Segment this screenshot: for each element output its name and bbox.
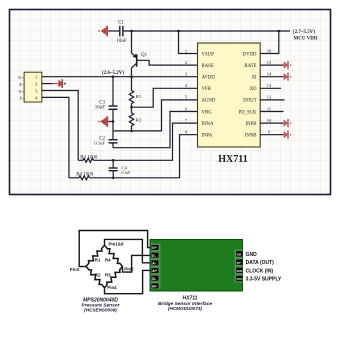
bridge sensor diamond arm R4 (top-right) [103, 244, 124, 268]
svg-text:CLOCK (IN): CLOCK (IN) [246, 268, 274, 274]
node: junction AGND/R2 [130, 130, 133, 133]
wire: bridge Pin3 to module E+ (outer loop) [79, 231, 150, 267]
svg-text:S-: S- [19, 96, 24, 101]
bridge labels [70, 242, 134, 290]
pin numbers 16-9 right of IC [267, 48, 272, 134]
power port arrow pin15 [284, 61, 292, 69]
module pad A- [152, 260, 159, 265]
wire: connector pin2 to AGND power port [42, 83, 53, 85]
resistor R1 [129, 91, 142, 104]
wire: pin11 PD_SCK stub [260, 111, 283, 113]
svg-text:Q1: Q1 [141, 53, 148, 58]
wire: connector pin3 (S+) down to R3 [42, 91, 78, 161]
node: junction rail/R1 [130, 75, 133, 78]
svg-text:Pin1&6: Pin1&6 [109, 242, 124, 247]
transistor Q1 (PNP) [132, 31, 148, 77]
svg-text:C1: C1 [118, 21, 124, 26]
node: junction C4/R4 line [112, 177, 115, 180]
svg-text:HX711: HX711 [218, 154, 247, 165]
node: junction rail/C3 [112, 75, 115, 78]
svg-text:Pin4: Pin4 [107, 285, 117, 290]
svg-text:R3 1000: R3 1000 [80, 155, 98, 160]
capacitor C4 0.1uF [109, 160, 131, 178]
pressure sensor caption [81, 297, 120, 312]
svg-text:R4 1000: R4 1000 [76, 172, 94, 177]
svg-text:DATA (OUT): DATA (OUT) [246, 260, 275, 266]
node: junction R1/R2/VFB [130, 106, 133, 109]
wire: AVDD rail (2.6-5.2V) [42, 71, 198, 77]
capacitor C1 10uF [116, 21, 127, 44]
power port AGND (red arrow left, mid) [98, 116, 113, 127]
node: junction rail/pin1 drop [177, 30, 180, 33]
bridge sensor diamond arm R3 (bottom-right) [103, 265, 124, 289]
svg-text:E-: E- [19, 82, 24, 87]
svg-text:(2.7~5.5V): (2.7~5.5V) [293, 30, 315, 35]
wire: VSUP pin 1 connection [179, 31, 198, 54]
wire: connector pin4 (S-) down to R4 [42, 97, 69, 177]
power port VSUP (red arrow left of C1) [98, 26, 119, 37]
svg-text:VBG: VBG [202, 110, 213, 115]
HX711 module PCB [150, 240, 243, 292]
svg-text:VCC: VCC [237, 277, 243, 281]
power port arrow pin9 [284, 131, 292, 139]
svg-text:DOUT: DOUT [243, 99, 256, 104]
svg-text:PD_SCK: PD_SCK [239, 110, 257, 115]
wire: R1 top lead [131, 77, 133, 91]
svg-text:0.1uF: 0.1uF [122, 171, 131, 175]
svg-text:AVDD: AVDD [202, 76, 216, 81]
module pad GND [236, 251, 242, 256]
svg-text:XO: XO [250, 87, 257, 92]
svg-text:0.1uF: 0.1uF [94, 141, 105, 146]
svg-text:E+: E+ [152, 246, 157, 250]
svg-text:12: 12 [267, 95, 271, 100]
svg-text:INPB: INPB [246, 122, 257, 127]
svg-text:Pin2: Pin2 [124, 267, 134, 272]
module pad E+ [152, 245, 159, 250]
module pad E- [152, 253, 159, 258]
svg-text:A+: A+ [152, 269, 157, 273]
module pad DT [236, 259, 242, 264]
svg-text:S+: S+ [18, 89, 24, 94]
svg-text:XI: XI [251, 76, 256, 81]
power port AGND at connector pin2 (red arrow right) [53, 79, 66, 88]
svg-text:(HCMODU0073): (HCMODU0073) [168, 306, 202, 311]
bridge sensor diamond arm R2 (bottom-left) [85, 265, 106, 289]
node: junction rail/pin16 drop [278, 30, 281, 33]
svg-text:B+: B+ [152, 285, 157, 289]
module pad A+ [152, 268, 159, 273]
svg-text:DVDD: DVDD [243, 52, 257, 57]
wire: pin12 DOUT stub [260, 99, 284, 101]
svg-text:VSUP: VSUP [202, 52, 215, 57]
svg-text:R4: R4 [105, 258, 111, 263]
svg-text:2: 2 [185, 60, 187, 65]
svg-text:(HCSENS0009): (HCSENS0009) [84, 308, 117, 313]
wire: pin9 INNB stub [260, 134, 283, 136]
wire: bridge Pin4 to module A+ [105, 270, 151, 293]
wire: pin10 INPB stub [260, 122, 283, 124]
svg-text:10uF: 10uF [95, 105, 106, 110]
wire: pin14 XI stub [260, 76, 283, 78]
power port arrow pin10 [284, 119, 292, 127]
svg-text:1: 1 [185, 48, 187, 53]
svg-text:INPA: INPA [202, 134, 213, 139]
svg-text:INNB: INNB [245, 134, 257, 139]
svg-text:C4: C4 [122, 166, 128, 171]
svg-text:MPS20N0040D: MPS20N0040D [83, 297, 118, 303]
resistor R2 [129, 113, 142, 126]
wire: bridge Pin2 to module E- [123, 255, 151, 272]
svg-text:R1: R1 [136, 94, 142, 99]
capacitor C2 0.1uF [94, 131, 117, 148]
svg-text:SCK: SCK [237, 269, 243, 273]
svg-text:Pin3: Pin3 [70, 267, 80, 272]
wire: VBG line to pin 6 [113, 112, 198, 148]
wire: pin13 XO stub [260, 87, 281, 89]
node: junction rail/Q1 emitter [130, 30, 133, 33]
bridge sensor diamond arm R1 (top-left) [84, 244, 105, 268]
wire: R1/R2 middle [131, 104, 133, 113]
schematic sheet background and border [10, 10, 331, 195]
op-amp IC U1 HX711 [198, 43, 261, 165]
svg-text:R3: R3 [105, 273, 111, 278]
node: MCU VDD label [293, 30, 318, 41]
svg-text:BASE: BASE [202, 64, 214, 69]
wire: VFB divider tap to pin 4 [132, 88, 198, 107]
svg-text:R2: R2 [95, 273, 101, 278]
module caption [158, 295, 212, 311]
module pad VCC [236, 276, 242, 281]
wire: supply rail y=31 from C1 to MCU VDD [123, 30, 290, 32]
svg-text:INNA: INNA [202, 122, 215, 127]
wire: Q1 base to HX711 pin 2 [138, 60, 198, 65]
svg-text:3.3-5V SUPPLY: 3.3-5V SUPPLY [246, 277, 282, 283]
svg-text:GND: GND [246, 252, 258, 258]
module pad B- [152, 276, 159, 281]
wire: pin15 RATE stub [260, 64, 283, 66]
resistor R3 1000 [78, 155, 98, 162]
svg-text:11: 11 [267, 106, 271, 111]
svg-text:RATE: RATE [245, 64, 257, 69]
svg-text:R1: R1 [95, 258, 101, 263]
svg-text:HX711: HX711 [183, 295, 198, 301]
node: junction C3/AGND arrow [112, 120, 115, 123]
svg-text:AGND: AGND [202, 99, 216, 104]
svg-text:DT: DT [237, 261, 241, 265]
module pad B+ [152, 283, 159, 288]
wire: R3 to pin 7 [93, 123, 197, 160]
wire: AGND line to pin 5 [113, 100, 198, 131]
wire: R2 bottom lead [131, 126, 133, 131]
resistor R4 1000 [69, 172, 94, 179]
svg-text:VFB: VFB [202, 87, 211, 92]
wire: R4 to pin 8 [89, 135, 197, 178]
connector J1 (E+ E- S+ S-) [18, 72, 42, 102]
module right pin labels [246, 252, 282, 283]
node: junction C4/R3 line [112, 159, 115, 162]
svg-text:10uF: 10uF [116, 39, 127, 44]
wire: bridge Pin1&6 to module A- [105, 239, 151, 262]
power port arrow pin14 [284, 73, 292, 81]
capacitor C3 10uF [95, 77, 118, 131]
svg-text:(2.6~5.2V): (2.6~5.2V) [102, 71, 124, 76]
svg-text:R2: R2 [136, 117, 142, 122]
svg-text:E+: E+ [18, 75, 24, 80]
pin numbers 1-8 left of IC [185, 48, 188, 134]
module pad SCK [236, 268, 242, 273]
svg-text:MCU VDD: MCU VDD [294, 36, 318, 41]
wire: pin16 DVDD to supply rail [260, 31, 279, 54]
